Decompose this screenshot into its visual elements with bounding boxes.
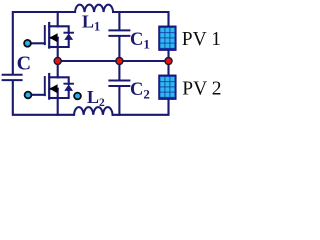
wire source Q1 down to middle rail xyxy=(57,38,59,61)
transistor Q1 upper MOSFET xyxy=(31,12,58,61)
body stub Q1 xyxy=(50,37,58,39)
source stub Q2 xyxy=(49,97,58,99)
node source terminal S2 (cyan) xyxy=(74,93,81,100)
wire drain Q1 to top rail xyxy=(57,12,59,26)
wire drain Q2 up to middle rail xyxy=(57,61,59,77)
junction node: switch node (red) xyxy=(54,58,61,65)
cathode bar D1 xyxy=(64,32,73,34)
wire top-left run (left rail upper + top rail to L1) xyxy=(13,12,75,74)
svg-text:PV 2: PV 2 xyxy=(182,78,221,99)
drain stub Q1 xyxy=(49,25,58,27)
capacitor C2 xyxy=(109,61,129,115)
wire PV1 bottom to middle rail xyxy=(167,50,169,61)
wire bottom rail from L2 to PV string bottom xyxy=(113,99,169,115)
wire top rail from L1 to PV string top xyxy=(113,12,168,26)
PV panel PV1 xyxy=(159,26,176,50)
PV panel PV2 xyxy=(159,75,176,99)
gate bar Q1 xyxy=(44,26,46,44)
body stub Q2 xyxy=(50,88,58,90)
diode D1 triangle xyxy=(64,33,73,40)
inductor L1 xyxy=(75,5,113,12)
drain stub Q2 xyxy=(49,76,58,78)
junction node: C1/C2 midpoint (red) xyxy=(116,58,123,65)
arrow of Q2 (body arrow, black) xyxy=(49,84,57,93)
gate lead Q2 xyxy=(32,94,45,96)
wire left rail lower + bottom rail to L2 xyxy=(13,81,74,115)
capacitor C xyxy=(3,75,22,80)
source stub Q1 xyxy=(49,46,58,48)
svg-text:C: C xyxy=(17,53,31,75)
arrow of Q1 (body arrow, black) xyxy=(49,33,57,42)
junction node: PV midpoint (red) xyxy=(165,58,172,65)
wire middle rail to PV2 top xyxy=(167,61,169,75)
wire middle rail (switch node to PV midpoint) xyxy=(58,60,169,62)
capacitor C1 xyxy=(109,12,129,61)
diode D2 triangle xyxy=(64,84,73,91)
diode D2 body diode of Q2 xyxy=(58,77,73,98)
node gate terminal G2 (cyan) xyxy=(25,92,32,99)
gate lead Q1 xyxy=(31,42,45,44)
channel bar Q1 xyxy=(48,23,50,48)
svg-text:PV 1: PV 1 xyxy=(182,29,221,50)
inductor L2 xyxy=(74,107,113,115)
wire source Q2 down to bottom rail xyxy=(57,89,59,115)
cathode bar D2 xyxy=(64,83,73,85)
channel bar Q2 xyxy=(48,74,50,99)
diode D1 body diode of Q1 xyxy=(58,26,73,47)
node gate terminal G1 (cyan) xyxy=(24,40,31,47)
gate bar Q2 xyxy=(44,77,46,95)
transistor Q2 lower MOSFET xyxy=(32,61,58,115)
